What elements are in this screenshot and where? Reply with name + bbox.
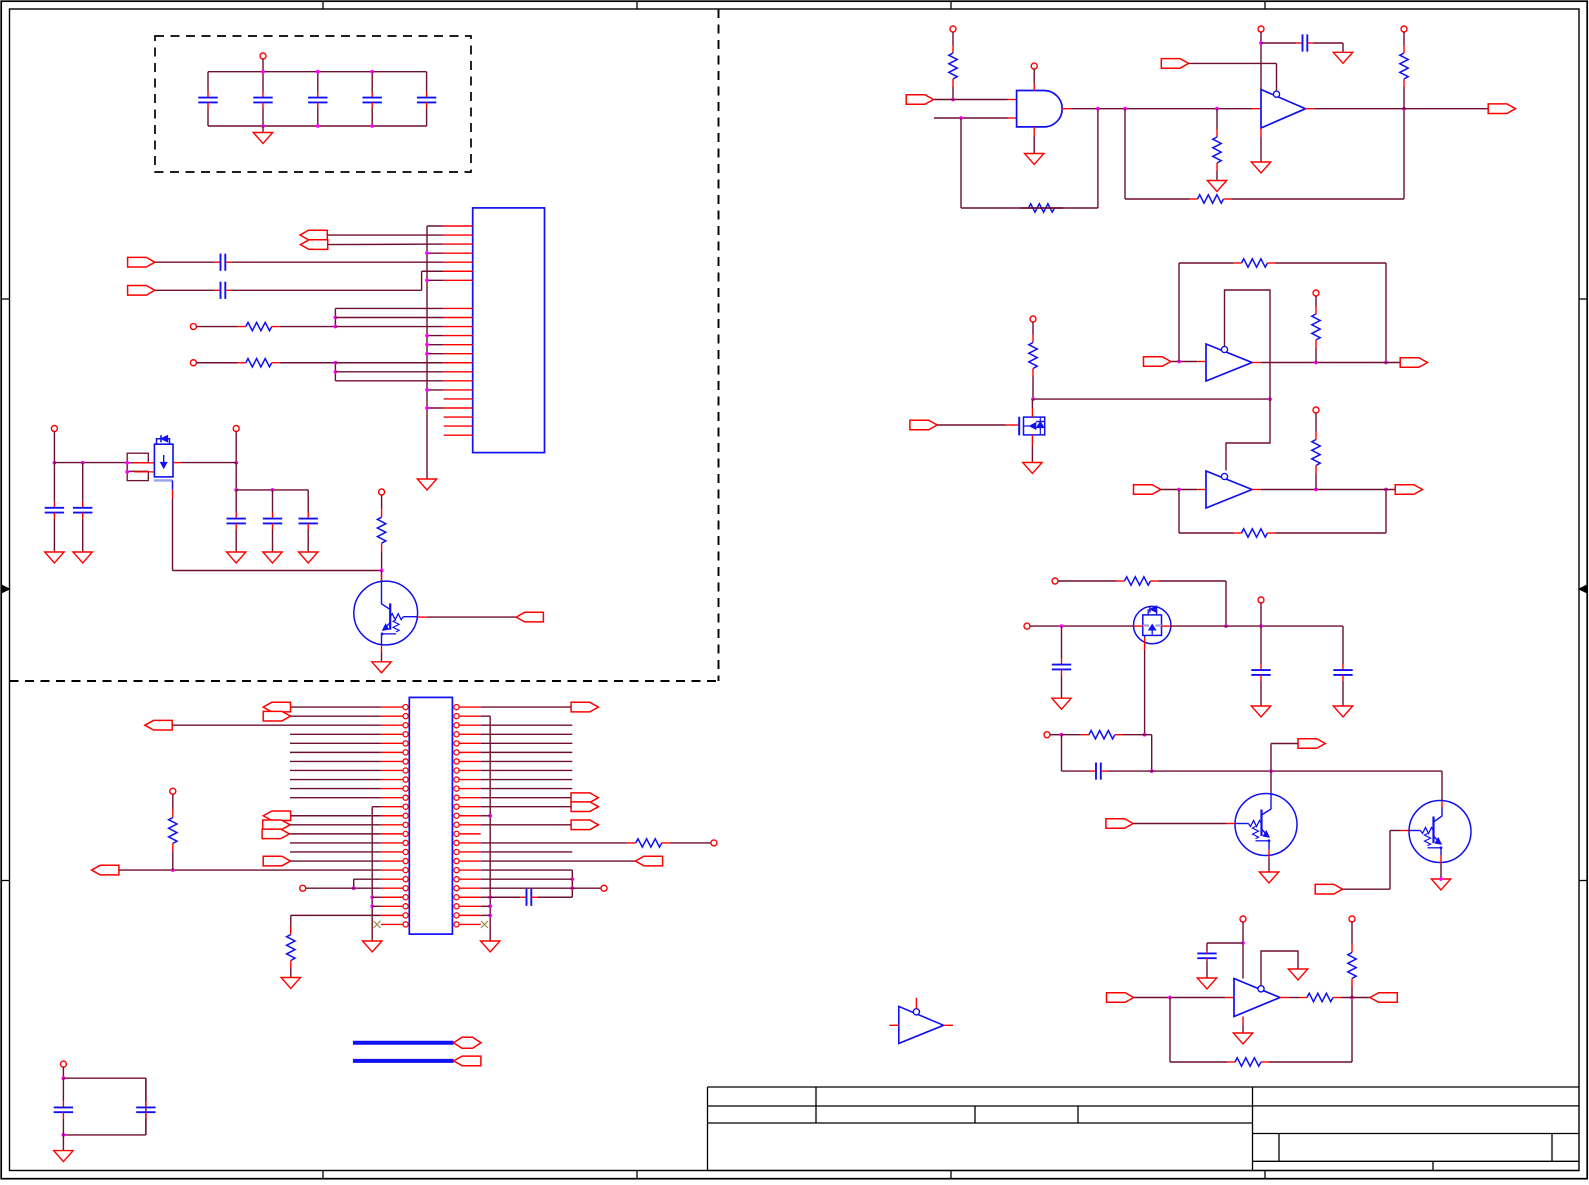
resistor R10 pulldown bbox=[1216, 109, 1218, 129]
ground U3 bbox=[1260, 128, 1262, 137]
wire U5 out bbox=[1252, 489, 1261, 491]
port R12 bbox=[571, 802, 598, 812]
ground C16 bbox=[1342, 43, 1344, 52]
ground U6 en bbox=[1288, 969, 1307, 980]
wire R1r bbox=[481, 706, 571, 708]
resistor R18 bbox=[1062, 734, 1081, 736]
capacitor C15 bbox=[145, 1078, 147, 1101]
mosfet Q1 gate bbox=[154, 479, 173, 481]
ferrite bead FB1 bbox=[127, 453, 148, 463]
wire I sense left bbox=[1061, 735, 1063, 771]
resistor R21 bbox=[1351, 922, 1353, 945]
wire L2 bbox=[291, 715, 381, 717]
wire feedback G2b bbox=[1403, 109, 1405, 199]
capacitor C18 bbox=[1260, 626, 1262, 664]
resistor R4 bbox=[172, 794, 174, 809]
ground R10 bbox=[1207, 181, 1226, 192]
wire H gate line bbox=[1033, 398, 1270, 400]
port U4 in bbox=[1144, 357, 1171, 367]
wires L16-L17 bbox=[290, 842, 381, 844]
ground A bbox=[262, 126, 264, 133]
port IN pair (rows2-3) bbox=[300, 230, 327, 240]
resistor R5 bbox=[290, 927, 292, 934]
ground U2 bbox=[1033, 127, 1035, 136]
pin I4 bbox=[1044, 732, 1050, 738]
wire I1 bbox=[1225, 581, 1227, 626]
title block bbox=[708, 1086, 1580, 1088]
bus entry arrow bbox=[454, 1037, 481, 1048]
wire U3 vcc bbox=[1260, 32, 1262, 90]
wire Q3 source bbox=[1031, 435, 1033, 445]
wire H gate bbox=[937, 424, 1005, 426]
port L18 bbox=[263, 856, 290, 866]
wire P2 jog bbox=[421, 271, 423, 290]
resistor R17 bbox=[1058, 580, 1117, 582]
capacitor C19 bbox=[1342, 626, 1344, 658]
ground C10 bbox=[227, 552, 246, 563]
opamp U6 bbox=[1234, 979, 1280, 1017]
resistor R15 bbox=[1179, 532, 1234, 534]
pin R1 input bbox=[190, 324, 196, 330]
wire I out bbox=[1271, 743, 1298, 745]
wire I rail right bbox=[1171, 625, 1343, 627]
wire I long down bbox=[1441, 771, 1443, 801]
wire L15 bbox=[289, 833, 381, 835]
wire bus stub bbox=[427, 353, 444, 355]
resistor R19 bbox=[1170, 1061, 1227, 1063]
port J out bbox=[1370, 993, 1397, 1003]
wire E loop right bbox=[145, 1078, 147, 1135]
junction dots rails bbox=[261, 70, 265, 74]
wire J fb bbox=[1169, 998, 1171, 1063]
capacitor C21 bbox=[1197, 952, 1216, 954]
power pin U3 bbox=[1258, 26, 1264, 32]
wire Q5 emitter bbox=[1268, 841, 1270, 850]
transistor Q6 npn digital bbox=[1409, 801, 1471, 863]
wire G in bbox=[934, 99, 1008, 101]
ground Q5 bbox=[1259, 872, 1278, 883]
pin I3 bbox=[1258, 597, 1264, 603]
bus line 2 bbox=[353, 1059, 454, 1063]
wire L20 jog bbox=[354, 878, 381, 880]
dashed partition horizontal line bbox=[10, 680, 719, 682]
power pin C2 bbox=[233, 426, 239, 432]
power pin E bbox=[60, 1061, 66, 1067]
wire U3 out bbox=[1306, 108, 1315, 110]
resistor R11 bbox=[1403, 32, 1405, 45]
mosfet Q4 pfet bbox=[1134, 606, 1171, 643]
wire J vcc bbox=[1242, 922, 1244, 979]
resistor R12 bbox=[1032, 322, 1034, 335]
port L2 bbox=[263, 711, 290, 721]
wire Q5 collector bbox=[1270, 771, 1272, 793]
capacitor C12 bbox=[307, 490, 309, 513]
pin R2 input bbox=[190, 360, 196, 366]
power pin J1 bbox=[1240, 916, 1246, 922]
port I out bbox=[1298, 739, 1325, 749]
power pin C1 bbox=[51, 426, 57, 432]
ground R5 bbox=[281, 978, 300, 989]
wire top rail bbox=[208, 71, 427, 73]
wires R3-R10 bbox=[481, 724, 573, 726]
capacitor C20 bbox=[1062, 770, 1090, 772]
wire R11 bbox=[481, 797, 571, 799]
wire R17 bbox=[481, 851, 573, 853]
ground C11 bbox=[263, 552, 282, 563]
ground C9 bbox=[73, 552, 92, 563]
buffer U1 spare bbox=[899, 1006, 944, 1043]
port R11 bbox=[571, 793, 598, 803]
port L1 bbox=[263, 702, 290, 712]
wire U4 in bbox=[1171, 361, 1198, 363]
wire I4 bbox=[1050, 734, 1062, 736]
dashed partition box top-left bbox=[155, 36, 471, 172]
capacitor C10 bbox=[235, 490, 237, 513]
ground U6 bbox=[1242, 1017, 1244, 1026]
wire Q1 drain bbox=[173, 462, 181, 464]
wire bus stub bbox=[427, 279, 444, 281]
pin I1 bbox=[1052, 578, 1058, 584]
pin R16 top bbox=[1313, 407, 1319, 413]
wire Q4 source bbox=[1144, 635, 1146, 637]
wire R1 node bbox=[334, 308, 336, 326]
no-connect L25 bbox=[374, 921, 381, 928]
wire R22 pinstub bbox=[481, 896, 491, 898]
ground E bbox=[54, 1151, 73, 1162]
pin R21 bbox=[601, 885, 607, 891]
wire bus stub bbox=[427, 389, 444, 391]
wire pin1 bbox=[427, 225, 444, 227]
capacitor C2 bbox=[262, 72, 264, 92]
wire feedback G1b bbox=[960, 118, 962, 208]
pin R14 top bbox=[1313, 290, 1319, 296]
and gate U2 bbox=[1017, 91, 1063, 127]
wire fb top bbox=[1178, 263, 1180, 362]
wire R14 bbox=[481, 824, 571, 826]
port R18 bbox=[635, 856, 662, 866]
wire feedback G1 bbox=[1097, 109, 1099, 208]
ground Q3 bbox=[1023, 463, 1042, 474]
wire L18 bbox=[291, 860, 381, 862]
port U5 in bbox=[1134, 485, 1161, 495]
wire Q1 gate to Q2 collector bbox=[172, 499, 174, 571]
wire J in bbox=[1134, 997, 1226, 999]
border center arrow left bbox=[1, 588, 9, 590]
wire Q6 emitter bbox=[1440, 848, 1442, 855]
capacitor C17 bbox=[1061, 626, 1063, 658]
dashed partition vertical line bbox=[718, 9, 720, 681]
pin I2 bbox=[1024, 623, 1030, 629]
resistor R20 bbox=[1289, 997, 1299, 999]
ground Q2 bbox=[372, 662, 391, 673]
resistor R7 bbox=[952, 32, 954, 45]
port L3 bbox=[145, 720, 172, 730]
wire U6 out bbox=[1280, 997, 1289, 999]
port P2 bbox=[128, 286, 155, 296]
power pin G1 bbox=[950, 26, 956, 32]
port G out bbox=[1488, 104, 1515, 114]
capacitor C7 series bbox=[155, 289, 215, 291]
port L13 bbox=[263, 811, 290, 821]
wire Q6 base bbox=[1343, 888, 1391, 890]
wire gnd bus J1 bbox=[426, 226, 428, 479]
ground J2 left bbox=[363, 941, 382, 952]
port H gate bbox=[910, 420, 937, 430]
wire E loop top bbox=[63, 1077, 145, 1079]
transistor Q5 npn digital bbox=[1235, 794, 1297, 856]
resistor R13 bbox=[1179, 262, 1234, 264]
wire E loop bottom bbox=[63, 1134, 145, 1136]
ground C12 bbox=[299, 552, 318, 563]
port L14 bbox=[263, 820, 290, 830]
wire row2 bbox=[327, 234, 443, 236]
buffer U5 bbox=[1206, 471, 1252, 508]
resistor R3 bbox=[381, 495, 383, 509]
wire R21 pin bbox=[572, 887, 601, 889]
wire U2 out bbox=[1062, 108, 1071, 110]
resistor R8 bbox=[1021, 207, 1098, 209]
mosfet Q1 pfet bbox=[154, 444, 173, 477]
capacitor C13 bbox=[490, 896, 520, 898]
wire U6 enable bbox=[1261, 951, 1298, 986]
capacitor C11 bbox=[272, 490, 274, 513]
port Q5 base bbox=[1106, 819, 1133, 829]
capacitor C9 bbox=[82, 463, 84, 502]
pin R21 top bbox=[1349, 916, 1355, 922]
capacitor C3 bbox=[317, 72, 319, 92]
connector J1 pins bbox=[444, 225, 473, 227]
wire R2 node bbox=[334, 363, 336, 381]
ground J1 bbox=[417, 479, 436, 490]
resistor R6 bbox=[481, 842, 628, 844]
port R14 bbox=[571, 820, 598, 830]
ground C18 bbox=[1251, 706, 1270, 717]
wire row3 bbox=[328, 243, 444, 246]
port R1r bbox=[571, 702, 598, 712]
ground C8 bbox=[45, 552, 64, 563]
wire U4 out bbox=[1252, 362, 1261, 364]
wire fb top b bbox=[1385, 263, 1387, 363]
ground C17 bbox=[1052, 698, 1071, 709]
pin R12 top bbox=[1030, 316, 1036, 322]
capacitor C4 bbox=[371, 72, 373, 92]
pin R6 end bbox=[711, 840, 717, 846]
resistor R14 bbox=[1315, 296, 1317, 306]
ground C19 bbox=[1333, 706, 1352, 717]
resistor R16 bbox=[1315, 413, 1317, 432]
wire I sense right bbox=[1145, 734, 1152, 736]
wire R13 bbox=[481, 815, 491, 817]
capacitor C5 bbox=[426, 72, 428, 92]
wire Q2 base port bbox=[418, 616, 427, 618]
ground J2 right bbox=[481, 941, 500, 952]
wire R12 bbox=[481, 806, 571, 808]
connector J2 body bbox=[409, 697, 452, 934]
wire fb bot bbox=[1178, 490, 1180, 534]
port U5 out bbox=[1395, 485, 1422, 495]
wire L1 bbox=[291, 706, 381, 708]
capacitor C8 bbox=[53, 463, 55, 502]
wire U4 oe loop bbox=[1225, 290, 1271, 471]
wire Q5 base bbox=[1133, 823, 1226, 825]
wire L24 bbox=[291, 914, 381, 916]
port L15 bbox=[262, 829, 289, 839]
port U4 out bbox=[1400, 358, 1427, 368]
wire I rail bbox=[1030, 625, 1134, 627]
wire feedback G2 bbox=[1124, 109, 1126, 199]
wire R19-R22 vertical bbox=[571, 870, 573, 897]
border ticks bbox=[322, 1, 324, 9]
wire U5 in bbox=[1161, 489, 1198, 491]
wire bus stub bbox=[427, 407, 444, 409]
no-connect R25 bbox=[481, 921, 488, 928]
ground Q6 bbox=[1431, 879, 1450, 890]
wire R18 bbox=[481, 860, 636, 862]
port bus 2 bbox=[454, 1056, 481, 1066]
wire J fb b bbox=[1351, 998, 1353, 1063]
wire G in2 bbox=[934, 117, 1008, 119]
wire Q3 drain bbox=[1031, 399, 1033, 408]
wire U3 enable bbox=[1189, 62, 1277, 64]
wire R2r gnd bus bbox=[481, 715, 491, 717]
pin R4 top bbox=[170, 788, 176, 794]
port Q2 base bbox=[516, 612, 543, 622]
wires R23 R24 bbox=[481, 905, 491, 907]
port G in bbox=[906, 95, 933, 105]
wire bottom rail bbox=[208, 125, 427, 127]
wire fb bot b bbox=[1385, 490, 1387, 534]
opamp U3 bbox=[1261, 90, 1306, 129]
pin R11 top bbox=[1401, 26, 1407, 32]
port J in bbox=[1107, 993, 1134, 1003]
wire L3 bbox=[173, 724, 381, 726]
wire E gnd bbox=[62, 1135, 64, 1151]
port P1 bbox=[128, 257, 155, 267]
mosfet Q3 bbox=[1018, 417, 1020, 436]
power pin VCC A bbox=[260, 53, 266, 59]
wire L12 gnd bus bbox=[372, 806, 381, 808]
power pin U2 bbox=[1031, 63, 1037, 69]
wire R21 bbox=[481, 887, 573, 889]
wire L14 bbox=[290, 824, 381, 826]
resistor R1 bbox=[196, 326, 237, 328]
wire Q2 emitter bbox=[381, 634, 383, 646]
wire bus stub bbox=[427, 252, 444, 254]
port Q6 base bbox=[1315, 884, 1342, 894]
pin R3 top bbox=[379, 489, 385, 495]
capacitor C14 bbox=[62, 1078, 64, 1101]
pin L21 bbox=[300, 885, 306, 891]
buffer U4 bbox=[1206, 344, 1252, 381]
wire rail C bbox=[54, 462, 127, 464]
border center arrow right bbox=[1579, 588, 1587, 590]
bus line 1 bbox=[353, 1041, 454, 1045]
capacitor C1 bbox=[207, 72, 209, 92]
wire bus stub bbox=[427, 344, 444, 346]
wire bus stub bbox=[427, 335, 444, 337]
wire L19 bbox=[119, 869, 381, 871]
transistor Q2 npn digital bbox=[354, 581, 418, 645]
port L19 bbox=[92, 865, 119, 875]
resistor R9 bbox=[1125, 198, 1190, 200]
connector J1 body bbox=[473, 208, 545, 453]
wire E top bbox=[62, 1067, 64, 1078]
ground C21 bbox=[1197, 978, 1216, 989]
wire J cap bbox=[1207, 942, 1243, 944]
wires L4-L11 bus stubs bbox=[290, 733, 381, 735]
capacitor C6 series bbox=[155, 261, 215, 263]
resistor R2 bbox=[196, 362, 237, 364]
wire L13 bbox=[291, 815, 381, 817]
wire R20 bbox=[481, 878, 573, 880]
connector J2 left pins bbox=[403, 705, 408, 710]
wire R19 bbox=[481, 869, 573, 871]
wire L21 bbox=[306, 887, 381, 889]
port U3 enable bbox=[1161, 59, 1188, 69]
wire cap rail C bbox=[235, 463, 237, 490]
capacitor C16 bbox=[1261, 42, 1296, 44]
connector J2 right pins bbox=[454, 705, 459, 710]
wire I long bbox=[1152, 770, 1442, 772]
